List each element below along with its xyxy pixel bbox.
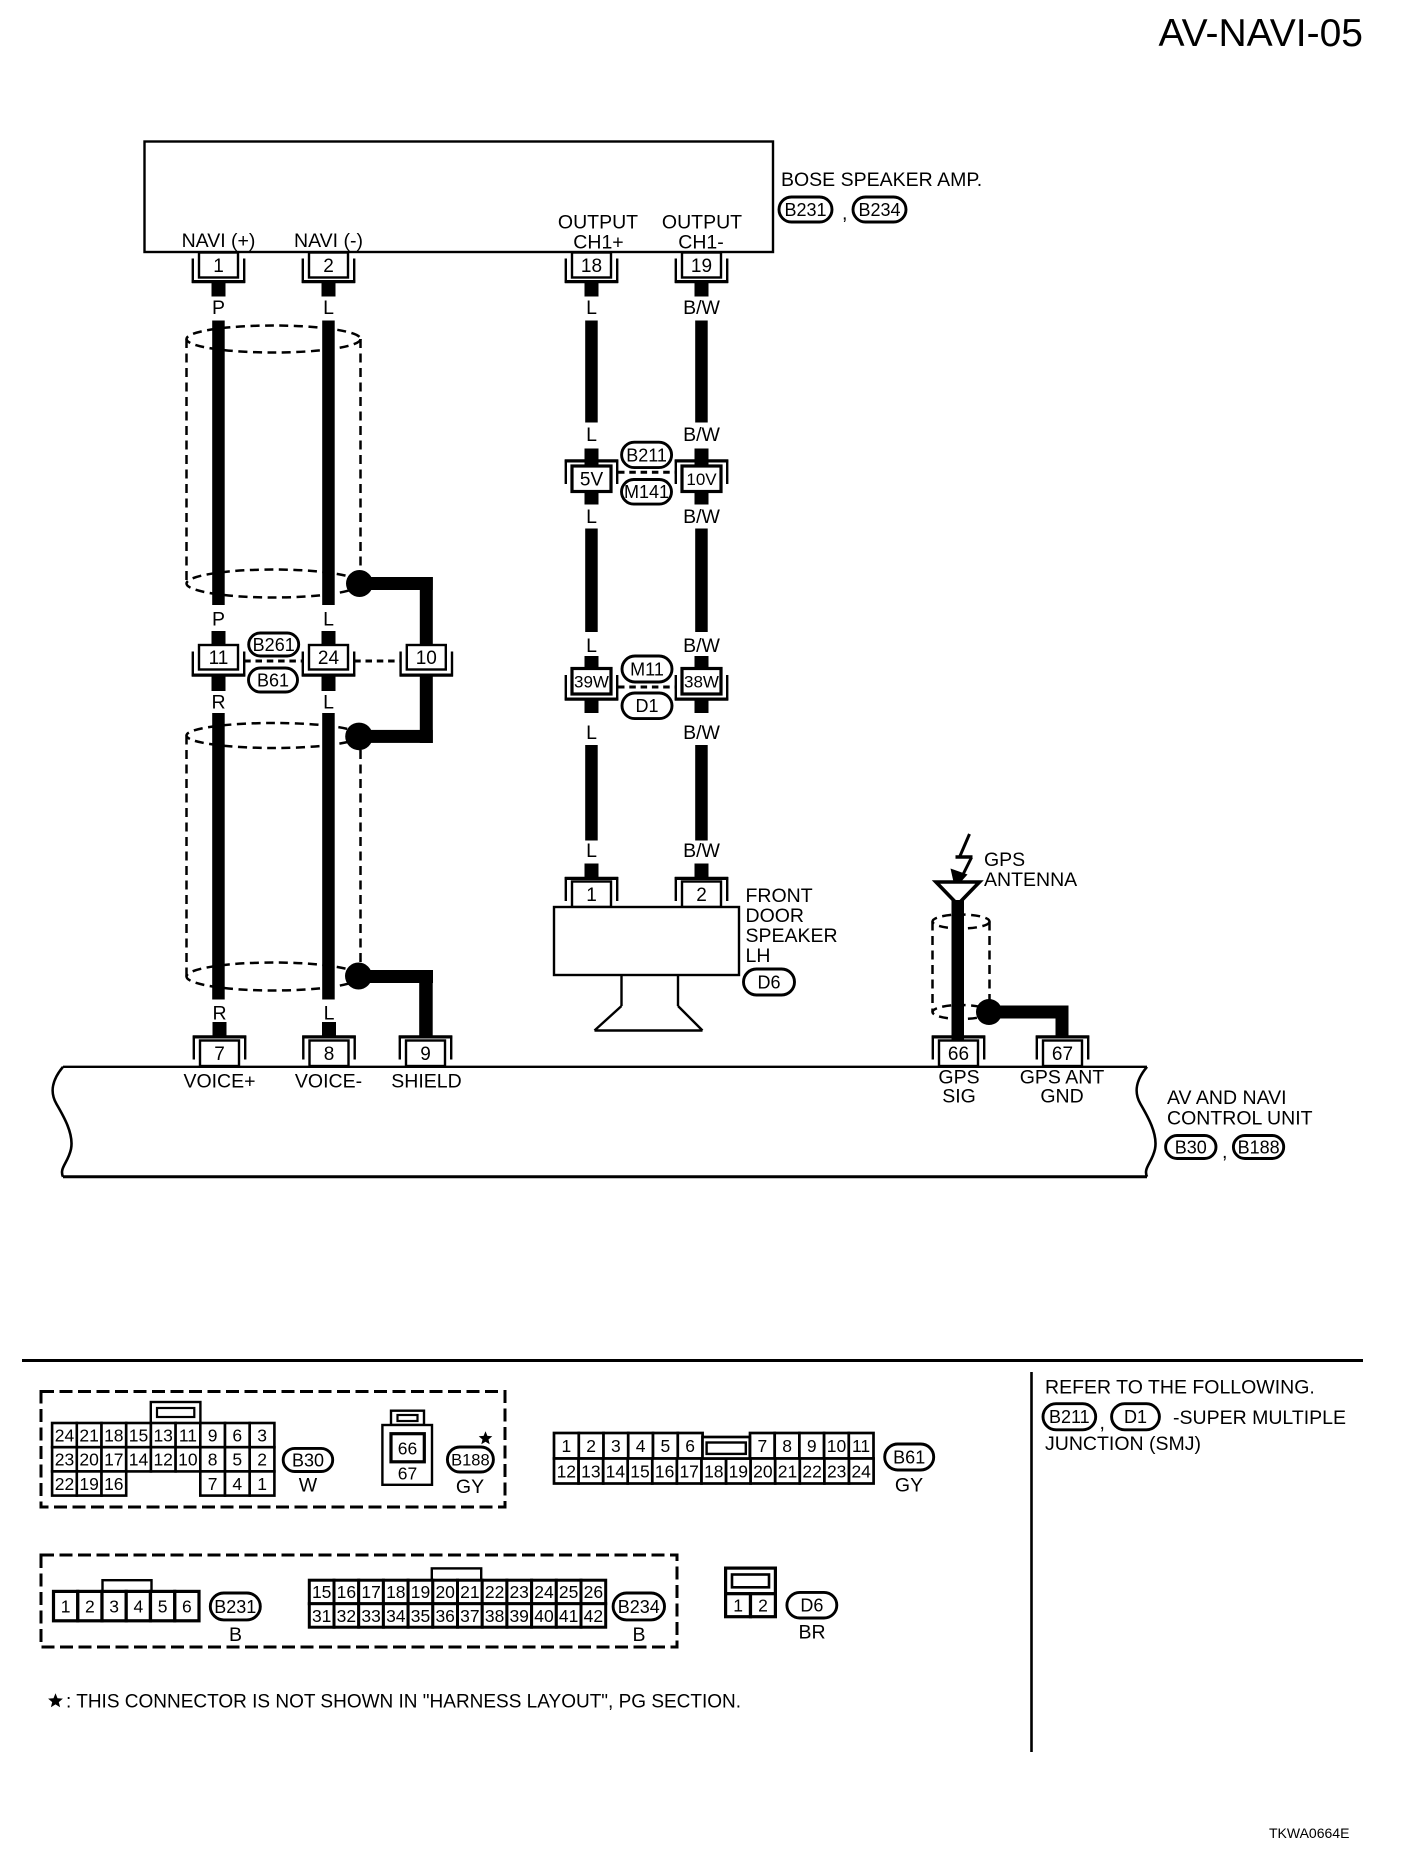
connector face B61 24-pin grid: [554, 1433, 874, 1484]
vertical divider: [1030, 1372, 1033, 1752]
svg-text:8: 8: [782, 1436, 792, 1456]
svg-text:26: 26: [584, 1582, 603, 1602]
connector oval B188: [1233, 1136, 1283, 1159]
wire stub above pin 7: [213, 1022, 227, 1037]
wire stub below connector 24: [322, 677, 336, 692]
svg-text:10: 10: [827, 1436, 847, 1456]
svg-text:5: 5: [232, 1450, 242, 1470]
color label GY: [456, 1476, 484, 1498]
svg-text:W: W: [299, 1475, 318, 1497]
svg-text:16: 16: [655, 1461, 674, 1481]
connector pin 1 (BOSE amp): [192, 253, 245, 284]
comma separator: [842, 203, 847, 225]
wire L CH1+ segment 3: [585, 745, 598, 841]
svg-text:7: 7: [214, 1044, 225, 1065]
svg-text:CH1-: CH1-: [678, 232, 724, 254]
wire stub below SMJ 10V: [695, 492, 709, 505]
figure code TKWA0664E: [1269, 1825, 1349, 1841]
shield drain wire to connector 10 (upper): [360, 577, 433, 646]
connector pin 18 (BOSE amp): [565, 253, 618, 284]
svg-text:39: 39: [509, 1606, 528, 1626]
svg-text:D6: D6: [800, 1596, 823, 1616]
shield drain wire from connector 10 (lower): [360, 677, 433, 744]
connector pin 67 (AV unit) GPS ANT GND: [1036, 1036, 1089, 1067]
color label B: [632, 1624, 645, 1646]
terminal label GPS SIG: [938, 1067, 979, 1108]
svg-text:40: 40: [534, 1606, 554, 1626]
pin label OUTPUT CH1+: [558, 212, 638, 254]
svg-text:L: L: [586, 506, 597, 528]
svg-text:GPS: GPS: [984, 849, 1025, 871]
svg-text:D1: D1: [635, 696, 658, 716]
svg-text:4: 4: [232, 1474, 242, 1494]
wire stub pin 18: [585, 283, 599, 297]
asterisk footnote mark: [479, 1431, 493, 1444]
wire L segment lower: [322, 713, 335, 1000]
svg-text:3: 3: [257, 1425, 267, 1445]
connector oval B261: [249, 633, 299, 656]
connector pin 9 (AV unit) SHIELD: [399, 1036, 452, 1067]
connector oval B30: [1166, 1136, 1216, 1159]
svg-text:B/W: B/W: [683, 635, 720, 657]
svg-text:20: 20: [753, 1461, 773, 1481]
wire stub pin 19: [695, 283, 709, 297]
svg-text:6: 6: [182, 1596, 192, 1616]
svg-text:B61: B61: [257, 670, 289, 690]
wire stub above speaker pin 2: [695, 864, 709, 878]
color label BR: [798, 1622, 825, 1644]
svg-text:8: 8: [208, 1450, 218, 1470]
dashed link pin 11 to pin 24: [244, 660, 303, 663]
connector pin 8 (AV unit) VOICE-: [302, 1036, 355, 1067]
color label GY: [895, 1475, 923, 1497]
wire B/W CH1- segment 3: [695, 745, 708, 841]
junction dot shield 1: [346, 570, 373, 597]
svg-text:21: 21: [778, 1461, 797, 1481]
svg-text:B/W: B/W: [683, 424, 720, 446]
svg-text:P: P: [212, 297, 225, 319]
svg-text:20: 20: [79, 1450, 99, 1470]
connector oval B211 (note): [1043, 1404, 1096, 1430]
svg-text:12: 12: [153, 1450, 172, 1470]
note REFER TO THE FOLLOWING: [1045, 1377, 1315, 1399]
SMJ terminal 10V: [675, 460, 728, 492]
svg-text:32: 32: [337, 1606, 356, 1626]
svg-text:B234: B234: [618, 1597, 660, 1617]
svg-text:9: 9: [420, 1044, 431, 1065]
wire stub above SMJ 5V: [585, 449, 599, 467]
svg-text:33: 33: [361, 1606, 380, 1626]
svg-text:1: 1: [213, 256, 224, 277]
connector oval B61 (inline): [249, 668, 298, 692]
svg-text:18: 18: [386, 1582, 405, 1602]
svg-text:GY: GY: [895, 1475, 923, 1497]
wire color label B/W (above speaker pin 2): [683, 840, 720, 862]
svg-text:GND: GND: [1040, 1086, 1083, 1108]
junction dot shield 2: [345, 723, 373, 751]
label GPS ANTENNA: [984, 849, 1077, 891]
wire color label B/W (above 38W): [683, 635, 720, 657]
horizontal rule: [22, 1359, 1363, 1362]
svg-text:41: 41: [559, 1606, 578, 1626]
svg-text:M141: M141: [624, 482, 669, 502]
svg-text:B/W: B/W: [683, 506, 720, 528]
svg-text:18: 18: [581, 256, 602, 277]
svg-text:1: 1: [733, 1596, 743, 1616]
svg-text:1: 1: [61, 1596, 71, 1616]
connector oval D1 (note): [1112, 1404, 1160, 1430]
wire color label L (pin 18): [586, 297, 597, 319]
svg-text:24: 24: [318, 648, 340, 669]
svg-text:L: L: [586, 424, 597, 446]
wire stub below SMJ 5V: [585, 492, 599, 505]
svg-text:,: ,: [1100, 1412, 1105, 1434]
wire stub above 38W: [695, 656, 709, 669]
svg-text:38W: 38W: [684, 672, 719, 691]
wire stub above connector 11: [212, 631, 226, 646]
GPS antenna lightning arrow: [951, 834, 973, 889]
connector face B234 24-pin grid: [309, 1568, 605, 1627]
wire stub above 39W: [585, 656, 599, 669]
svg-text:36: 36: [435, 1606, 454, 1626]
svg-text:4: 4: [636, 1436, 646, 1456]
svg-text:21: 21: [79, 1425, 98, 1445]
svg-text:AV-NAVI-05: AV-NAVI-05: [1159, 12, 1363, 55]
svg-text:D6: D6: [757, 972, 780, 992]
wire color label R (above pin 7): [212, 1003, 226, 1025]
terminal label VOICE+: [183, 1071, 255, 1093]
svg-text:8: 8: [324, 1044, 335, 1065]
wire stub pin 2: [322, 283, 336, 297]
svg-text:22: 22: [55, 1474, 74, 1494]
wire color label L (above pin 8): [324, 1003, 335, 1025]
svg-text:: THIS CONNECTOR IS NOT SHOWN: : THIS CONNECTOR IS NOT SHOWN IN "HARNES…: [66, 1692, 741, 1713]
svg-text:OUTPUT: OUTPUT: [558, 212, 638, 234]
svg-text:34: 34: [386, 1606, 406, 1626]
svg-text:15: 15: [312, 1582, 331, 1602]
wire stub above SMJ 10V: [695, 449, 709, 467]
connector oval B30 (face): [283, 1448, 333, 1471]
svg-text:25: 25: [559, 1582, 578, 1602]
wire color label L (below connector 24): [323, 692, 334, 714]
svg-text:15: 15: [129, 1425, 148, 1445]
svg-text:18: 18: [704, 1461, 723, 1481]
wire color label R (below connector 11): [211, 692, 225, 714]
svg-text:20: 20: [435, 1582, 455, 1602]
connector oval D1: [622, 693, 672, 719]
svg-text:CH1+: CH1+: [573, 232, 623, 254]
svg-text:17: 17: [361, 1582, 380, 1602]
svg-text:24: 24: [55, 1425, 75, 1445]
inline connector pin 24: [302, 645, 355, 677]
svg-text:L: L: [323, 609, 334, 631]
wire color label L (above speaker pin 1): [586, 840, 597, 862]
svg-text:2: 2: [323, 256, 334, 277]
dashed link pin 24 to pin 10: [354, 660, 400, 663]
svg-text:17: 17: [679, 1461, 698, 1481]
inline connector pin 11: [192, 645, 245, 677]
GPS antenna triangle: [936, 882, 980, 905]
svg-text:-SUPER MULTIPLE: -SUPER MULTIPLE: [1173, 1407, 1346, 1429]
svg-text:ANTENNA: ANTENNA: [984, 869, 1077, 891]
wire stub above connector 24: [322, 631, 336, 646]
svg-text:19: 19: [729, 1461, 748, 1481]
svg-text:22: 22: [485, 1582, 504, 1602]
svg-text:9: 9: [807, 1436, 817, 1456]
svg-text:CONTROL UNIT: CONTROL UNIT: [1167, 1108, 1313, 1130]
wire color label B/W (pin 19): [683, 297, 720, 319]
svg-text:2: 2: [85, 1596, 95, 1616]
color label W: [299, 1475, 318, 1497]
terminal label VOICE-: [295, 1071, 362, 1093]
wire R segment lower: [212, 713, 225, 1000]
svg-text:FRONT: FRONT: [746, 885, 813, 907]
svg-text:16: 16: [104, 1474, 123, 1494]
wire P segment upper: [212, 321, 225, 606]
svg-text:2: 2: [257, 1450, 267, 1470]
junction dot GPS shield: [976, 999, 1002, 1025]
svg-text:B: B: [632, 1624, 645, 1646]
svg-text:NAVI (-): NAVI (-): [294, 230, 363, 252]
pin label NAVI (-): [294, 230, 363, 252]
terminal label SHIELD: [391, 1071, 461, 1093]
svg-text:B/W: B/W: [683, 840, 720, 862]
svg-text:19: 19: [691, 256, 712, 277]
svg-text:5: 5: [158, 1596, 168, 1616]
svg-text:18: 18: [104, 1425, 123, 1445]
svg-text:VOICE+: VOICE+: [183, 1071, 255, 1093]
svg-text:23: 23: [509, 1582, 528, 1602]
svg-text:66: 66: [948, 1044, 969, 1065]
connector pin 2 (BOSE amp): [302, 253, 355, 284]
wire L CH1+ segment 1: [585, 321, 598, 423]
svg-text:B/W: B/W: [683, 297, 720, 319]
shield drain wire to pin 9: [359, 970, 434, 1037]
svg-text:L: L: [324, 1003, 335, 1025]
svg-text:P: P: [212, 609, 225, 631]
wire stub below 38W: [695, 701, 709, 714]
connector oval M141: [622, 480, 672, 505]
label BOSE SPEAKER AMP.: [781, 169, 982, 191]
svg-text:L: L: [586, 840, 597, 862]
wire color label B/W (below SMJ 10V): [683, 506, 720, 528]
junction dot shield 2 lower: [345, 963, 372, 990]
wire color label P (above connector 11): [212, 609, 225, 631]
svg-text:23: 23: [55, 1450, 74, 1470]
svg-text:9: 9: [208, 1425, 218, 1445]
svg-text:67: 67: [398, 1464, 417, 1484]
wire stub pin 1: [212, 283, 226, 297]
wire color label B/W (below 38W): [683, 722, 720, 744]
GPS shield drain wire to pin 67: [989, 1006, 1069, 1037]
speaker connector pin 1: [565, 877, 618, 907]
svg-text:DOOR: DOOR: [746, 905, 805, 927]
svg-text:B30: B30: [292, 1450, 324, 1470]
svg-text:1: 1: [257, 1474, 267, 1494]
svg-text:5: 5: [661, 1436, 671, 1456]
svg-text:24: 24: [534, 1582, 554, 1602]
svg-text:38: 38: [485, 1606, 504, 1626]
svg-text:35: 35: [411, 1606, 430, 1626]
svg-text:,: ,: [1222, 1141, 1227, 1163]
wire stub below 39W: [585, 701, 599, 714]
svg-text:10: 10: [178, 1450, 198, 1470]
svg-text:31: 31: [312, 1606, 331, 1626]
dashed link 39W to 38W: [618, 686, 675, 689]
svg-text:6: 6: [232, 1425, 242, 1445]
svg-text:1: 1: [562, 1436, 572, 1456]
label AV AND NAVI CONTROL UNIT: [1167, 1087, 1313, 1130]
svg-text:SIG: SIG: [942, 1086, 976, 1108]
svg-text:3: 3: [611, 1436, 621, 1456]
GPS antenna wire: [952, 900, 965, 1041]
svg-text:2: 2: [758, 1596, 768, 1616]
svg-text:3: 3: [109, 1596, 119, 1616]
title AV-NAVI-05: [1159, 12, 1363, 55]
label FRONT DOOR SPEAKER LH: [746, 885, 838, 967]
SMJ terminal 38W: [675, 669, 728, 701]
svg-text:B231: B231: [784, 200, 826, 220]
svg-text:R: R: [211, 692, 225, 714]
svg-text:1: 1: [586, 885, 597, 906]
comma separator: [1222, 1141, 1227, 1163]
connector oval B234: [853, 197, 906, 222]
svg-text:L: L: [586, 635, 597, 657]
footnote text: [66, 1692, 741, 1713]
connector face 66/67 GPS: [382, 1411, 432, 1485]
svg-text:B261: B261: [253, 635, 295, 655]
note SUPER MULTIPLE JUNCTION: [1045, 1407, 1346, 1455]
wire stub above speaker pin 1: [585, 864, 599, 878]
connector oval B234 (face): [613, 1593, 664, 1620]
svg-text:B211: B211: [1049, 1407, 1090, 1427]
footnote asterisk: [48, 1693, 63, 1707]
svg-text:6: 6: [685, 1436, 695, 1456]
svg-text:BOSE SPEAKER AMP.: BOSE SPEAKER AMP.: [781, 169, 982, 191]
svg-text:L: L: [586, 297, 597, 319]
svg-text:7: 7: [208, 1474, 218, 1494]
wire color label L (above 39W): [586, 635, 597, 657]
svg-text:B188: B188: [1238, 1137, 1280, 1157]
wire B/W CH1- segment 1: [695, 321, 708, 423]
connector oval D6 (face): [787, 1592, 837, 1618]
svg-text:L: L: [323, 297, 334, 319]
svg-text:B188: B188: [451, 1451, 490, 1469]
pin label NAVI (+): [182, 230, 256, 252]
SMJ terminal 5V: [565, 460, 618, 492]
SMJ terminal 39W: [565, 669, 618, 701]
speaker cone symbol: [595, 975, 703, 1031]
terminal label GPS ANT GND: [1020, 1067, 1105, 1108]
svg-text:10V: 10V: [686, 470, 717, 489]
connector pin 19 (BOSE amp): [675, 253, 728, 284]
connector oval B231: [779, 197, 832, 222]
shield cylinder 2 around VOICE wires: [187, 723, 361, 991]
svg-text:14: 14: [606, 1461, 626, 1481]
svg-text:NAVI (+): NAVI (+): [182, 230, 256, 252]
svg-text:2: 2: [696, 885, 707, 906]
inline connector pin 10: [400, 645, 453, 677]
svg-text:D1: D1: [1124, 1407, 1147, 1427]
svg-text:39W: 39W: [574, 672, 609, 691]
wire stub below connector 11: [212, 677, 226, 692]
svg-text:5V: 5V: [580, 470, 604, 491]
svg-text:13: 13: [153, 1425, 172, 1445]
wire L CH1+ segment 2: [585, 529, 598, 633]
svg-text:67: 67: [1052, 1044, 1073, 1065]
connector face B30 24-pin grid: [52, 1402, 274, 1496]
svg-text:13: 13: [581, 1461, 600, 1481]
speaker connector pin 2: [675, 877, 728, 907]
connector oval B211: [622, 442, 672, 467]
svg-text:19: 19: [79, 1474, 98, 1494]
wire stub above pin 8: [322, 1022, 336, 1037]
svg-text:SHIELD: SHIELD: [391, 1071, 461, 1093]
svg-text:B/W: B/W: [683, 722, 720, 744]
connector face D6 2-pin: [726, 1568, 776, 1617]
connector oval B61 (face): [885, 1444, 934, 1470]
svg-text:2: 2: [586, 1436, 596, 1456]
shield cylinder 1 around NAVI wires: [187, 326, 361, 598]
svg-text:7: 7: [758, 1436, 768, 1456]
svg-text:4: 4: [134, 1596, 144, 1616]
wire L segment upper: [322, 321, 335, 606]
svg-text:37: 37: [460, 1606, 479, 1626]
svg-text:10: 10: [416, 648, 437, 669]
connector oval M11: [622, 656, 672, 682]
svg-text:REFER TO THE FOLLOWING.: REFER TO THE FOLLOWING.: [1045, 1377, 1315, 1399]
svg-text:AV AND NAVI: AV AND NAVI: [1167, 1087, 1287, 1109]
svg-text:42: 42: [584, 1606, 603, 1626]
color label B: [229, 1624, 242, 1646]
GPS shield cylinder: [933, 915, 990, 1020]
svg-text:M11: M11: [630, 659, 664, 679]
svg-text:R: R: [212, 1003, 226, 1025]
svg-text:L: L: [323, 692, 334, 714]
svg-text:LH: LH: [746, 945, 771, 967]
svg-text:L: L: [586, 722, 597, 744]
wire color label L: [323, 297, 334, 319]
connector oval D6: [744, 969, 795, 995]
wire color label B/W (above SMJ 10V): [683, 424, 720, 446]
connector oval B188 (face): [447, 1447, 493, 1472]
connector oval B231 (face): [210, 1593, 260, 1620]
connector face B231 6-pin: [54, 1580, 200, 1621]
svg-text:B211: B211: [626, 445, 667, 465]
svg-text:17: 17: [104, 1450, 123, 1470]
BOSE SPEAKER AMP box: [145, 142, 774, 253]
comma separator: [1100, 1412, 1105, 1434]
dashed group box 2 (B231 B234 connectors): [41, 1555, 677, 1647]
wire color label L (above SMJ 5V): [586, 424, 597, 446]
svg-text:22: 22: [802, 1461, 821, 1481]
svg-text:21: 21: [460, 1582, 479, 1602]
dashed group box 1 (B30 B188 connectors): [41, 1392, 505, 1508]
svg-text:JUNCTION (SMJ): JUNCTION (SMJ): [1045, 1433, 1201, 1455]
svg-text:11: 11: [852, 1436, 870, 1456]
connector pin 7 (AV unit) VOICE+: [193, 1036, 246, 1067]
svg-text:11: 11: [209, 648, 229, 669]
wire B/W CH1- segment 2: [695, 529, 708, 633]
svg-text:23: 23: [827, 1461, 846, 1481]
svg-text:B30: B30: [1175, 1137, 1207, 1157]
svg-text:OUTPUT: OUTPUT: [662, 212, 742, 234]
wire color label P: [212, 297, 225, 319]
svg-text:,: ,: [842, 203, 847, 225]
svg-text:19: 19: [411, 1582, 430, 1602]
svg-text:16: 16: [337, 1582, 356, 1602]
wire color label L (above connector 24): [323, 609, 334, 631]
